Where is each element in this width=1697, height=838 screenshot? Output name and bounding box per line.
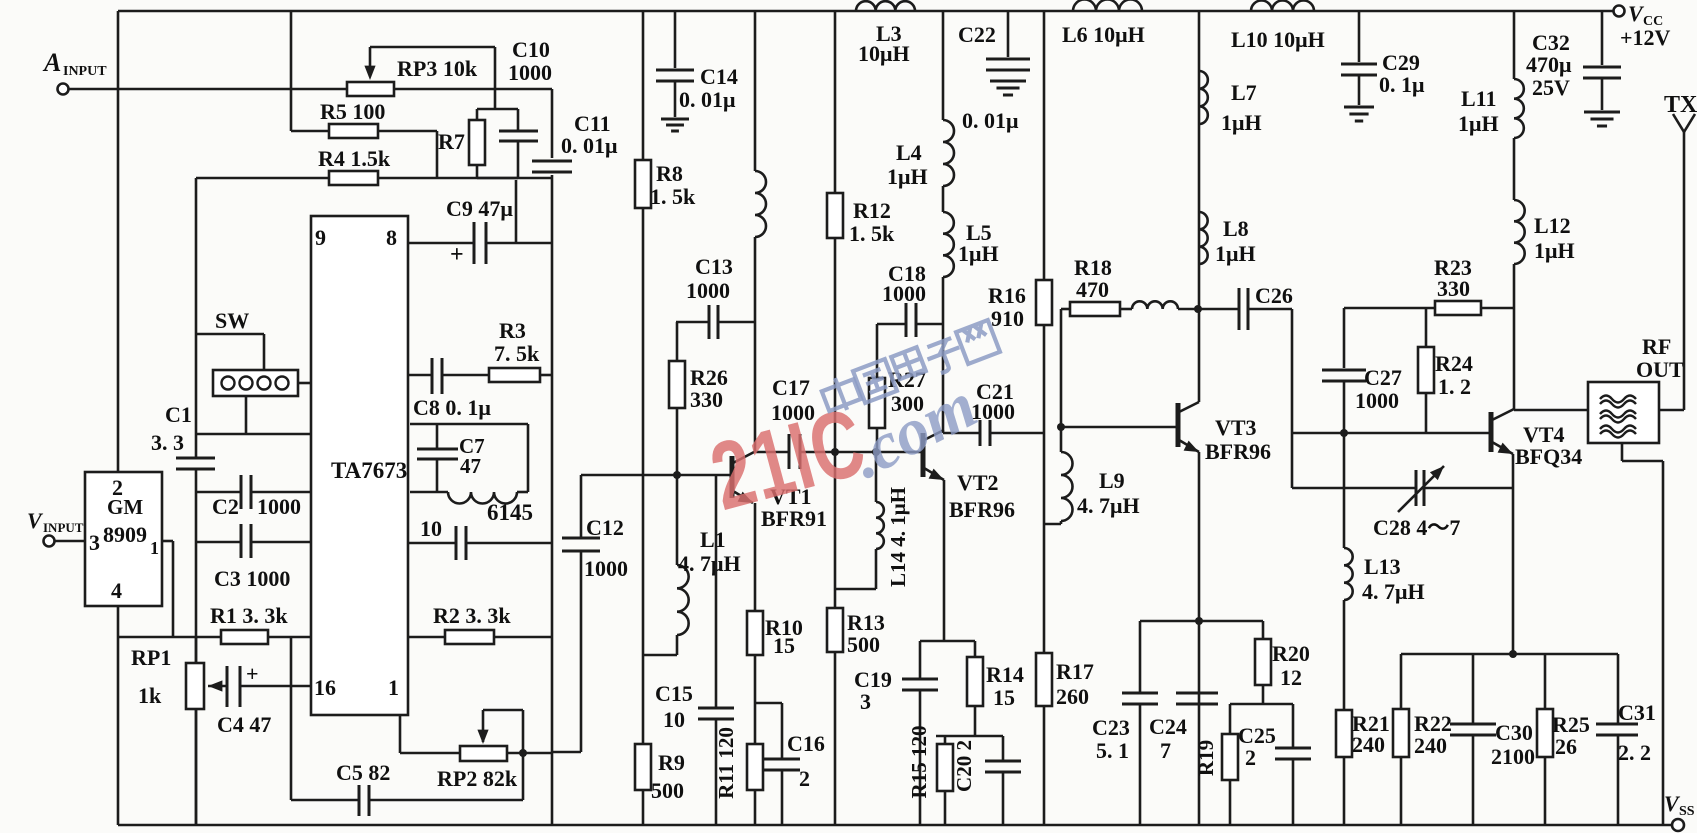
- svg-text:26: 26: [1555, 734, 1577, 759]
- svg-text:C15: C15: [655, 681, 693, 706]
- svg-text:C20 2: C20 2: [952, 740, 976, 792]
- svg-text:470μ: 470μ: [1526, 52, 1572, 77]
- svg-text:RF: RF: [1642, 334, 1671, 359]
- svg-text:L8: L8: [1223, 216, 1249, 241]
- svg-text:C23: C23: [1092, 715, 1130, 740]
- svg-text:0. 1μ: 0. 1μ: [1379, 72, 1425, 97]
- svg-text:6145: 6145: [487, 500, 533, 525]
- svg-text:L11: L11: [1461, 86, 1496, 111]
- svg-text:C24: C24: [1149, 714, 1187, 739]
- svg-text:10μH: 10μH: [858, 41, 910, 66]
- svg-text:1: 1: [150, 538, 159, 558]
- svg-text:RP2 82k: RP2 82k: [437, 766, 518, 791]
- svg-text:INPUT: INPUT: [63, 64, 107, 79]
- svg-text:R16: R16: [988, 283, 1026, 308]
- svg-text:RP1: RP1: [131, 645, 171, 670]
- svg-text:R9: R9: [658, 750, 685, 775]
- svg-text:+12V: +12V: [1620, 25, 1671, 50]
- svg-text:1000: 1000: [257, 494, 301, 519]
- svg-text:500: 500: [847, 632, 880, 657]
- svg-text:15: 15: [993, 685, 1015, 710]
- svg-text:10: 10: [420, 516, 442, 541]
- svg-text:C16: C16: [787, 731, 825, 756]
- svg-text:7. 5k: 7. 5k: [494, 341, 540, 366]
- svg-text:R7: R7: [438, 129, 465, 154]
- svg-text:330: 330: [1437, 276, 1470, 301]
- svg-text:8909: 8909: [103, 522, 147, 547]
- svg-text:L13: L13: [1364, 554, 1401, 579]
- svg-text:25V: 25V: [1532, 75, 1570, 100]
- svg-text:2: 2: [799, 766, 810, 791]
- svg-text:47: 47: [460, 454, 481, 478]
- svg-text:1. 5k: 1. 5k: [849, 221, 895, 246]
- svg-text:L9: L9: [1099, 468, 1125, 493]
- svg-text:+: +: [246, 661, 259, 686]
- svg-text:TX: TX: [1664, 92, 1697, 118]
- svg-text:R8: R8: [656, 161, 683, 186]
- svg-text:RP3 10k: RP3 10k: [397, 56, 478, 81]
- svg-text:12: 12: [1280, 665, 1302, 690]
- svg-text:1000: 1000: [508, 60, 552, 85]
- svg-text:4. 7μH: 4. 7μH: [1077, 493, 1140, 518]
- svg-text:470: 470: [1076, 277, 1109, 302]
- svg-text:8: 8: [386, 225, 397, 250]
- svg-text:1μH: 1μH: [1534, 238, 1575, 263]
- svg-text:4: 4: [111, 578, 122, 603]
- svg-text:VT2: VT2: [957, 470, 999, 495]
- svg-text:L4: L4: [896, 140, 922, 165]
- svg-text:L10 10μH: L10 10μH: [1231, 27, 1325, 52]
- svg-text:910: 910: [991, 306, 1024, 331]
- svg-text:C22: C22: [958, 22, 996, 47]
- svg-text:C17: C17: [772, 375, 810, 400]
- svg-text:5. 1: 5. 1: [1096, 738, 1129, 763]
- svg-text:1μH: 1μH: [1458, 111, 1499, 136]
- svg-text:L1: L1: [700, 527, 726, 552]
- svg-text:3: 3: [89, 530, 100, 555]
- svg-text:R14: R14: [986, 662, 1024, 687]
- svg-text:A: A: [42, 48, 61, 77]
- svg-text:1000: 1000: [686, 278, 730, 303]
- svg-text:R1 3. 3k: R1 3. 3k: [210, 603, 288, 628]
- svg-text:260: 260: [1056, 684, 1089, 709]
- svg-text:R17: R17: [1056, 659, 1094, 684]
- svg-text:R5 100: R5 100: [320, 99, 385, 124]
- svg-text:500: 500: [651, 778, 684, 803]
- svg-text:SW: SW: [215, 308, 249, 333]
- svg-text:C28 4～7: C28 4～7: [1373, 515, 1460, 540]
- svg-text:R19: R19: [1194, 740, 1218, 776]
- svg-text:R15 120: R15 120: [907, 726, 931, 799]
- svg-text:3. 3: 3. 3: [151, 430, 184, 455]
- svg-text:C30: C30: [1495, 720, 1533, 745]
- svg-text:3: 3: [860, 689, 871, 714]
- svg-text:C31: C31: [1618, 700, 1656, 725]
- svg-text:R4 1.5k: R4 1.5k: [318, 146, 391, 171]
- svg-text:1000: 1000: [1355, 388, 1399, 413]
- svg-text:C13: C13: [695, 254, 733, 279]
- svg-text:0. 01μ: 0. 01μ: [962, 108, 1019, 133]
- svg-text:C12: C12: [586, 515, 624, 540]
- svg-text:SS: SS: [1679, 804, 1695, 819]
- svg-text:R12: R12: [853, 198, 891, 223]
- svg-text:16: 16: [314, 675, 336, 700]
- svg-text:1000: 1000: [584, 556, 628, 581]
- svg-text:L12: L12: [1534, 213, 1571, 238]
- svg-text:GM: GM: [107, 495, 143, 519]
- svg-text:1μH: 1μH: [958, 241, 999, 266]
- svg-text:R3: R3: [499, 318, 526, 343]
- svg-text:C26: C26: [1255, 283, 1293, 308]
- svg-text:2: 2: [1245, 745, 1256, 770]
- svg-text:1μH: 1μH: [1221, 110, 1262, 135]
- svg-text:BFR96: BFR96: [1205, 439, 1271, 464]
- svg-text:R2 3. 3k: R2 3. 3k: [433, 603, 511, 628]
- svg-text:2100: 2100: [1491, 744, 1535, 769]
- svg-text:1. 5k: 1. 5k: [650, 184, 696, 209]
- svg-text:OUT: OUT: [1636, 357, 1684, 382]
- svg-text:1μH: 1μH: [887, 164, 928, 189]
- svg-text:VT3: VT3: [1215, 415, 1257, 440]
- svg-text:R11 120: R11 120: [714, 727, 738, 799]
- svg-text:V: V: [27, 508, 44, 533]
- svg-text:0. 01μ: 0. 01μ: [679, 87, 736, 112]
- svg-text:C25: C25: [1238, 723, 1276, 748]
- svg-text:C9 47μ: C9 47μ: [446, 196, 513, 221]
- svg-text:C14: C14: [700, 64, 738, 89]
- svg-text:9: 9: [315, 225, 326, 250]
- svg-text:1: 1: [388, 675, 399, 700]
- svg-text:1000: 1000: [882, 281, 926, 306]
- svg-text:C1: C1: [165, 402, 192, 427]
- svg-text:L7: L7: [1231, 80, 1257, 105]
- svg-text:1k: 1k: [138, 683, 162, 708]
- svg-text:TA7673: TA7673: [331, 458, 407, 483]
- svg-text:BFR96: BFR96: [949, 497, 1015, 522]
- svg-text:C4 47: C4 47: [217, 712, 271, 737]
- svg-text:0. 01μ: 0. 01μ: [561, 133, 618, 158]
- svg-text:R20: R20: [1272, 641, 1310, 666]
- svg-text:+: +: [450, 242, 464, 268]
- svg-text:R24: R24: [1435, 351, 1473, 376]
- svg-text:C10: C10: [512, 37, 550, 62]
- svg-text:4. 7μH: 4. 7μH: [1362, 579, 1425, 604]
- svg-text:C3 1000: C3 1000: [214, 566, 290, 591]
- svg-text:10: 10: [663, 707, 685, 732]
- svg-text:4. 7μH: 4. 7μH: [678, 551, 741, 576]
- svg-text:1. 2: 1. 2: [1438, 374, 1471, 399]
- svg-text:C2: C2: [212, 494, 239, 519]
- svg-text:L14 4. 1μH: L14 4. 1μH: [886, 487, 910, 587]
- svg-text:2. 2: 2. 2: [1618, 740, 1651, 765]
- svg-text:15: 15: [773, 633, 795, 658]
- svg-text:C8 0. 1μ: C8 0. 1μ: [413, 395, 491, 420]
- svg-text:C27: C27: [1364, 365, 1402, 390]
- svg-text:240: 240: [1414, 733, 1447, 758]
- svg-text:INPUT: INPUT: [43, 520, 84, 535]
- svg-text:L6 10μH: L6 10μH: [1062, 22, 1145, 47]
- svg-text:1μH: 1μH: [1215, 241, 1256, 266]
- svg-text:240: 240: [1352, 732, 1385, 757]
- svg-text:BFQ34: BFQ34: [1515, 444, 1582, 469]
- svg-text:C5 82: C5 82: [336, 760, 390, 785]
- svg-text:7: 7: [1160, 738, 1171, 763]
- svg-text:330: 330: [690, 387, 723, 412]
